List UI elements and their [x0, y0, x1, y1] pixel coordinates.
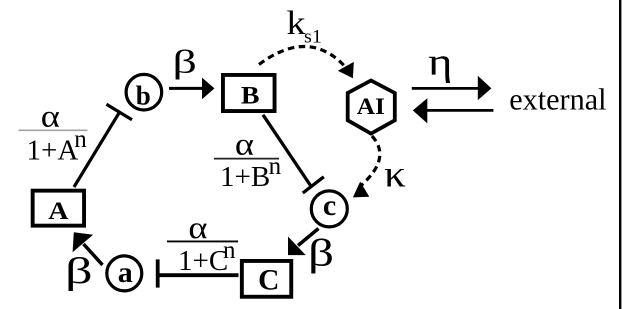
arrow beta a to A — [73, 232, 103, 265]
box A — [33, 191, 84, 226]
svg-text:α: α — [188, 211, 207, 245]
svg-text:β: β — [173, 43, 197, 80]
label alpha over 1+B^n — [214, 128, 282, 193]
svg-text:1+C: 1+C — [178, 245, 228, 277]
label alpha over 1+C^n — [167, 211, 238, 277]
svg-text:external: external — [509, 82, 606, 116]
repression line B to c with T-bar — [263, 115, 324, 193]
label alpha over 1+A^n — [19, 100, 88, 167]
right border line — [619, 0, 621, 309]
box B — [223, 75, 275, 111]
svg-text:s1: s1 — [304, 27, 322, 47]
svg-text:1+B: 1+B — [220, 161, 270, 193]
svg-text:n: n — [223, 237, 236, 264]
arrow eta forward — [412, 76, 492, 100]
hexagon AI — [348, 81, 395, 134]
circle c — [311, 189, 347, 227]
svg-text:A: A — [48, 196, 68, 224]
box C — [242, 261, 291, 297]
svg-text:B: B — [241, 81, 260, 109]
repression line C to a with T-bar — [158, 259, 239, 287]
arrow beta b to B — [169, 78, 215, 100]
circle a — [107, 256, 142, 291]
svg-text:1+A: 1+A — [27, 135, 79, 167]
dashed arrow k_s1 from B to AI — [259, 46, 354, 78]
svg-text:AI: AI — [357, 94, 385, 120]
arrow eta reverse — [413, 98, 494, 123]
svg-text:α: α — [235, 128, 254, 162]
svg-text:α: α — [41, 100, 60, 134]
svg-text:b: b — [136, 80, 151, 110]
svg-text:β: β — [308, 232, 334, 274]
svg-text:κ: κ — [384, 153, 406, 195]
svg-text:a: a — [118, 256, 133, 289]
arrow beta c to C — [288, 229, 319, 256]
svg-text:C: C — [258, 265, 279, 297]
svg-text:n: n — [269, 153, 282, 180]
svg-text:η: η — [428, 41, 452, 84]
svg-text:n: n — [74, 126, 87, 153]
svg-text:β: β — [65, 250, 93, 292]
repression line A to b with T-bar — [74, 104, 132, 187]
circle b — [126, 74, 162, 110]
dashed arrow kappa AI to c — [353, 136, 380, 197]
svg-text:c: c — [323, 189, 336, 222]
